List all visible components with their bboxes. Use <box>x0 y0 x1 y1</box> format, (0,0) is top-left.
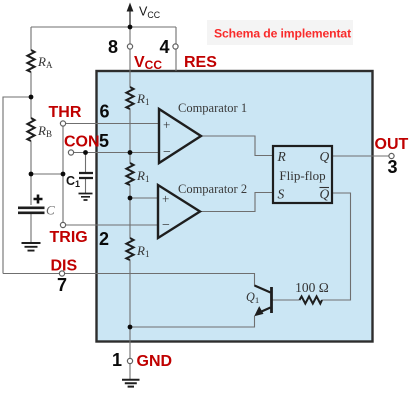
svg-text:DIS: DIS <box>51 258 78 275</box>
555 IC body <box>97 71 373 342</box>
svg-text:TRIG: TRIG <box>50 229 88 246</box>
ground (below pin 1) <box>122 380 140 387</box>
svg-text:S: S <box>278 187 285 202</box>
wire: CON line <box>71 152 159 154</box>
op-amp U1 comparator 1 <box>159 109 201 163</box>
svg-text:RA: RA <box>37 54 53 70</box>
capacitor C1 <box>79 173 93 178</box>
pin 4 terminal <box>173 44 178 49</box>
resistor 100 ohm <box>300 296 323 303</box>
svg-text:THR: THR <box>49 104 82 121</box>
wire: C top to tie <box>31 173 63 175</box>
resistor R1 top <box>126 87 133 109</box>
wire: comp2 output to flip-flop S <box>200 193 273 212</box>
wire: 100 ohm to Q1 base <box>273 299 300 301</box>
resistor R1 middle <box>126 163 133 185</box>
node emitter-GND <box>128 325 133 330</box>
wire: TRIG line <box>63 224 158 226</box>
node divider 2/3Vcc <box>128 150 133 155</box>
node divider 1/3Vcc <box>128 196 133 201</box>
pin 6 terminal <box>60 121 65 126</box>
svg-text:−: − <box>163 145 171 160</box>
wire: Q to OUT pin 3 <box>332 155 390 157</box>
wire: comp1 output to flip-flop R <box>201 136 273 156</box>
node CON-C1 <box>83 150 88 155</box>
resistor R1 bottom <box>126 238 133 260</box>
svg-text:+: + <box>163 117 170 132</box>
svg-text:+: + <box>162 191 169 206</box>
node THR tie <box>61 172 66 177</box>
svg-text:4: 4 <box>159 37 169 57</box>
wire: pin 4 drop <box>175 27 177 71</box>
svg-text:1: 1 <box>112 350 122 370</box>
power VCC arrow <box>129 10 131 27</box>
wire: DIS branch from RA-RB junction <box>3 97 31 274</box>
svg-text:Q: Q <box>320 149 330 164</box>
node RB-C <box>29 172 34 177</box>
svg-text:OUT: OUT <box>375 136 409 153</box>
title backdrop <box>207 20 353 45</box>
wire: top VCC rail <box>31 26 176 28</box>
wire: Qbar to 100 ohm <box>322 193 351 300</box>
wire: RA/RB column <box>30 27 32 205</box>
pin 7 terminal <box>59 271 64 276</box>
flip-flop U3 <box>273 146 332 203</box>
capacitor C (polarized) <box>18 208 45 213</box>
svg-text:C1: C1 <box>66 174 80 189</box>
svg-text:8: 8 <box>108 37 118 57</box>
svg-text:CON: CON <box>64 134 100 151</box>
svg-text:−: − <box>162 218 170 233</box>
svg-text:GND: GND <box>137 353 173 370</box>
transistor Q1 <box>270 287 273 313</box>
pin 1 terminal <box>127 358 132 363</box>
pin 2 terminal <box>60 222 65 227</box>
svg-text:Flip-flop: Flip-flop <box>279 168 325 183</box>
pin 3 terminal <box>389 153 394 158</box>
svg-text:Schema de implementat: Schema de implementat <box>214 27 351 41</box>
svg-text:VCC: VCC <box>139 5 161 21</box>
wire: C1 to ground <box>85 179 87 194</box>
wire: THR-TRIG tie <box>62 124 64 226</box>
svg-text:Comparator 1: Comparator 1 <box>178 101 247 115</box>
wire: pin 1 GND drop <box>129 327 131 379</box>
svg-text:Q: Q <box>320 187 330 202</box>
svg-text:Comparator 2: Comparator 2 <box>178 182 247 196</box>
pin 5 terminal <box>68 150 73 155</box>
wire: emitter to ground rail <box>130 316 255 327</box>
svg-text:R: R <box>277 149 287 164</box>
pin 8 terminal <box>127 44 132 49</box>
resistor RB <box>27 118 34 141</box>
resistor RA <box>27 50 34 72</box>
svg-text:C: C <box>46 203 55 218</box>
svg-text:6: 6 <box>99 102 109 122</box>
wire: THR line <box>63 123 159 125</box>
node VCC rail <box>128 25 133 30</box>
ground (below C) <box>22 243 41 251</box>
svg-text:RB: RB <box>37 123 52 139</box>
svg-text:5: 5 <box>99 131 109 151</box>
svg-text:2: 2 <box>99 229 109 249</box>
op-amp U2 comparator 2 <box>158 185 200 238</box>
svg-text:7: 7 <box>57 275 67 295</box>
wire: C bottom to ground <box>30 214 32 242</box>
svg-text:100 Ω: 100 Ω <box>295 280 329 295</box>
svg-text:VCC: VCC <box>134 54 162 72</box>
wire: divider column pin8 down <box>129 27 131 327</box>
svg-text:RES: RES <box>184 54 217 71</box>
wire: C1 branch <box>85 153 87 173</box>
svg-text:3: 3 <box>387 157 397 177</box>
wire: comparator2 + reference <box>130 197 158 199</box>
ground (below C1) <box>79 194 93 201</box>
node RA-RB (DIS) <box>29 95 34 100</box>
wire: DIS line into IC <box>3 274 255 287</box>
